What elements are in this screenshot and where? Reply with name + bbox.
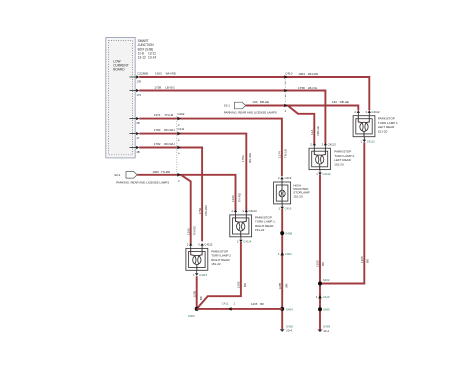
svg-text:1205: 1205: [316, 260, 320, 267]
label 1363 WH-RD (left): [155, 72, 177, 76]
vertical label 1783 RD-WH: [241, 153, 252, 163]
svg-text:1366: 1366: [186, 228, 190, 235]
svg-text:S404: S404: [286, 307, 293, 311]
splice arrow S2-1: [224, 102, 246, 109]
svg-text:RD-WH: RD-WH: [248, 153, 252, 163]
svg-text:C402: C402: [285, 252, 292, 256]
label 1758 LB-OG (right): [298, 86, 318, 90]
svg-text:LB-OG: LB-OG: [308, 86, 318, 90]
svg-text:S408: S408: [285, 232, 292, 236]
svg-text:1758: 1758: [298, 86, 305, 90]
svg-text:DB-HE: DB-HE: [340, 100, 349, 104]
inline connector C411 1 (gnd bus): [222, 301, 236, 310]
svg-text:C419: C419: [285, 207, 292, 211]
svg-text:C402: C402: [177, 112, 185, 116]
svg-text:C419: C419: [285, 176, 292, 180]
SJB pin 17S (row B exit): [130, 89, 142, 97]
svg-text:17B: 17B: [136, 80, 141, 84]
svg-text:1205: 1205: [192, 290, 196, 297]
svg-text:C2280B: C2280B: [137, 72, 148, 76]
svg-text:C4113: C4113: [328, 142, 336, 146]
inline connector 1 C402 (gnd): [278, 252, 292, 256]
svg-text:S402: S402: [323, 278, 330, 282]
svg-text:C4115: C4115: [204, 243, 212, 247]
ground bus wire 1205 BK from S403 to S404: [197, 308, 283, 310]
label 1783 RD-WH: [154, 128, 175, 132]
lamp PARK/STOP TURN LAMP 1 LEFT REAR (C4112): [353, 110, 399, 143]
lamp HIGH MOUNTED STOPLAMP (C419): [274, 176, 310, 210]
svg-text:S2-1: S2-1: [224, 104, 230, 108]
wire 13A DB-HE from S2-1 to left rear lamp1 pin2: [246, 106, 359, 111]
svg-text:C410: C410: [323, 295, 330, 299]
svg-text:C411: C411: [177, 127, 184, 131]
svg-text:1366: 1366: [231, 195, 235, 202]
vertical label 1374 TN-LB: [278, 149, 288, 158]
vertical label 1205 BK (left lamp1 gnd): [360, 256, 369, 263]
label 1363 WH-RD (right): [298, 72, 319, 76]
dashed connector line C402/C411: [176, 116, 178, 173]
svg-text:BK: BK: [284, 283, 288, 287]
svg-text:TN-RD: TN-RD: [161, 170, 171, 174]
SJB pin 2B (row C exit): [130, 117, 140, 125]
svg-text:C410: C410: [285, 72, 293, 76]
svg-text:1374: 1374: [278, 151, 282, 158]
SJB pin 47 (row D exit): [130, 132, 140, 140]
svg-text:RD-WH: RD-WH: [164, 142, 174, 146]
branch wire 13A DB-HE to left rear lamp2 pin2: [288, 106, 315, 144]
inline connector row E: [177, 146, 180, 156]
svg-text:1374: 1374: [154, 113, 161, 117]
svg-text:13A: 13A: [332, 100, 337, 104]
splice S405: [318, 307, 330, 311]
svg-text:1205: 1205: [360, 256, 364, 263]
splice S404: [280, 307, 293, 311]
vertical label 13A DB-HE on branch: [310, 126, 320, 135]
svg-text:4B: 4B: [136, 150, 139, 154]
svg-text:TN-RD: TN-RD: [193, 225, 197, 235]
svg-text:151-20: 151-20: [378, 129, 388, 133]
inline connector row S2: [177, 173, 180, 183]
vertical label 1782 RD-WH: [198, 205, 208, 215]
inline connector C410 row S1: [284, 104, 287, 113]
ground wire 1205 BK from right rear lamp2 to S403: [196, 276, 198, 309]
svg-text:13-12: 13-12: [138, 56, 146, 60]
branch wire 1366 TN-RD to right rear lamp2 pin2: [181, 175, 191, 244]
svg-text:151-22: 151-22: [255, 228, 265, 232]
wire 1374 TN-LB from SJB to high mounted stoplamp: [139, 119, 282, 177]
splice S402: [318, 278, 330, 286]
svg-text:17S: 17S: [136, 93, 141, 97]
svg-text:10-4: 10-4: [323, 329, 329, 333]
svg-text:2B: 2B: [136, 121, 139, 125]
ground G402: [280, 325, 294, 333]
svg-text:C4114: C4114: [249, 209, 257, 213]
svg-text:TN-LB: TN-LB: [284, 149, 288, 158]
wire 1758 LB-OG from SJB to left rear lamp2 pin3: [139, 91, 325, 144]
label 13A DB-HE (right): [332, 100, 349, 104]
ground wire 1205 BK from left rear lamp1 to S402: [322, 142, 365, 283]
svg-text:C4112: C4112: [367, 139, 375, 143]
label 1782 RD-WH: [154, 142, 175, 146]
low current board dashed box: [109, 40, 133, 154]
svg-text:C4113: C4113: [322, 172, 330, 176]
svg-text:1782: 1782: [198, 207, 202, 214]
svg-text:PARKING, REAR AND LICENSE LAMP: PARKING, REAR AND LICENSE LAMPS: [224, 111, 277, 115]
caption parking rear and license lamps (S2-1): [224, 111, 277, 115]
vertical label 1366 TN-RD (straight): [231, 192, 241, 202]
svg-text:BK: BK: [365, 259, 369, 263]
svg-text:10-4: 10-4: [286, 329, 292, 333]
vertical label 1366 TN-RD (branch): [186, 225, 196, 235]
inline connector C410 row A: [284, 72, 292, 85]
svg-text:DB-HE: DB-HE: [260, 100, 269, 104]
lamp PARK/STOP TURN LAMP 1 RIGHT REAR (C4114): [230, 209, 276, 243]
label 1205 BK (gnd bus): [251, 302, 264, 306]
smart junction box (SJB) outline: [106, 38, 135, 158]
vertical label 1205 BK (right lamp2 gnd): [192, 290, 203, 300]
svg-text:13A: 13A: [252, 100, 257, 104]
label 1366 TN-RD: [152, 170, 171, 174]
ground wire 1205 BK from right rear lamp1 to S403: [197, 242, 241, 309]
low current board label: [113, 59, 129, 71]
label C2280B: [137, 72, 148, 76]
svg-text:BOARD: BOARD: [113, 68, 125, 72]
svg-text:1783: 1783: [241, 155, 245, 162]
svg-text:151-20: 151-20: [293, 194, 303, 198]
splice S403: [188, 307, 199, 318]
inline connector 1 C410 (gnd): [316, 295, 330, 299]
svg-text:1205: 1205: [278, 282, 282, 289]
SJB name label: [138, 39, 157, 60]
wire 1783 RD-WH from SJB to right rear lamp1 pin3: [139, 134, 246, 211]
vertical label 1205 BK (right lamp1 gnd): [237, 281, 248, 288]
svg-text:151-22: 151-22: [211, 262, 221, 266]
SJB pin 4B (row E exit): [130, 146, 140, 154]
svg-text:WH-RD: WH-RD: [166, 72, 177, 76]
wire 1363 WH-RD from SJB to left rear lamp1 pin3: [139, 77, 369, 110]
svg-text:TN-RD: TN-RD: [237, 192, 241, 202]
wire 1782 RD-WH from SJB to right rear lamp2 pin3: [139, 148, 202, 242]
svg-text:1205: 1205: [237, 281, 241, 288]
svg-text:C4115: C4115: [199, 273, 207, 277]
svg-text:LB-OG: LB-OG: [165, 86, 175, 90]
dashed connector line C410: [284, 80, 286, 104]
svg-text:BK: BK: [260, 302, 264, 306]
svg-text:RD-WH: RD-WH: [204, 205, 208, 215]
svg-text:1366: 1366: [152, 170, 159, 174]
svg-text:S2-2: S2-2: [114, 173, 120, 177]
svg-text:1363: 1363: [155, 72, 162, 76]
wire 1366 TN-RD from S2-2 to right rear lamp1 pin2: [137, 175, 235, 211]
svg-text:13-14: 13-14: [148, 56, 156, 60]
ground G403: [318, 325, 331, 333]
inline connector C410 row B: [284, 89, 287, 99]
label 1758 LB-OG (left): [154, 86, 175, 90]
svg-text:C4112: C4112: [372, 110, 380, 114]
svg-text:BK: BK: [199, 296, 203, 300]
svg-text:PARKING, REAR AND LICENSE LAMP: PARKING, REAR AND LICENSE LAMPS: [116, 181, 169, 185]
svg-text:C4114: C4114: [243, 239, 251, 243]
inline connector C402 row C: [177, 112, 185, 127]
svg-text:1783: 1783: [154, 128, 161, 132]
svg-text:BK: BK: [321, 262, 325, 266]
svg-text:C411: C411: [222, 301, 229, 305]
svg-text:1782: 1782: [154, 142, 161, 146]
svg-text:1363: 1363: [298, 72, 305, 76]
ground wire 1205 BK from left rear lamp2 through S402 to G403: [319, 175, 321, 330]
svg-text:151-20: 151-20: [334, 162, 344, 166]
lamp PARK/STOP TURN LAMP 2 RIGHT REAR (C4115): [186, 243, 231, 277]
SJB pin 17B (row A exit): [130, 75, 142, 83]
label 1374 TN-LB: [154, 113, 173, 117]
label 13A DB-HE (left): [252, 100, 269, 104]
lamp PARK/STOP TURN LAMP 2 LEFT REAR (C4113): [309, 142, 355, 176]
svg-text:1758: 1758: [154, 86, 161, 90]
svg-text:DB-HE: DB-HE: [316, 126, 320, 135]
svg-text:13A: 13A: [310, 130, 314, 135]
svg-text:RD-WH: RD-WH: [164, 128, 174, 132]
svg-text:TN-LB: TN-LB: [165, 113, 174, 117]
svg-text:BK: BK: [243, 283, 247, 287]
splice arrow S2-2: [114, 172, 137, 179]
vertical label 1205 BK (stoplamp gnd): [278, 282, 289, 289]
svg-text:S405: S405: [323, 308, 330, 312]
caption parking rear and license lamps (S2-2): [116, 181, 169, 185]
svg-text:WH-RD: WH-RD: [308, 72, 319, 76]
svg-text:1205: 1205: [251, 302, 258, 306]
ground wire 1205 BK from high mounted stoplamp to G402: [281, 209, 283, 329]
vertical label 1205 BK (left lamp2 gnd): [316, 260, 325, 267]
svg-text:S403: S403: [188, 314, 195, 318]
inline connector C411 row D: [177, 127, 184, 142]
splice S408: [280, 231, 292, 236]
